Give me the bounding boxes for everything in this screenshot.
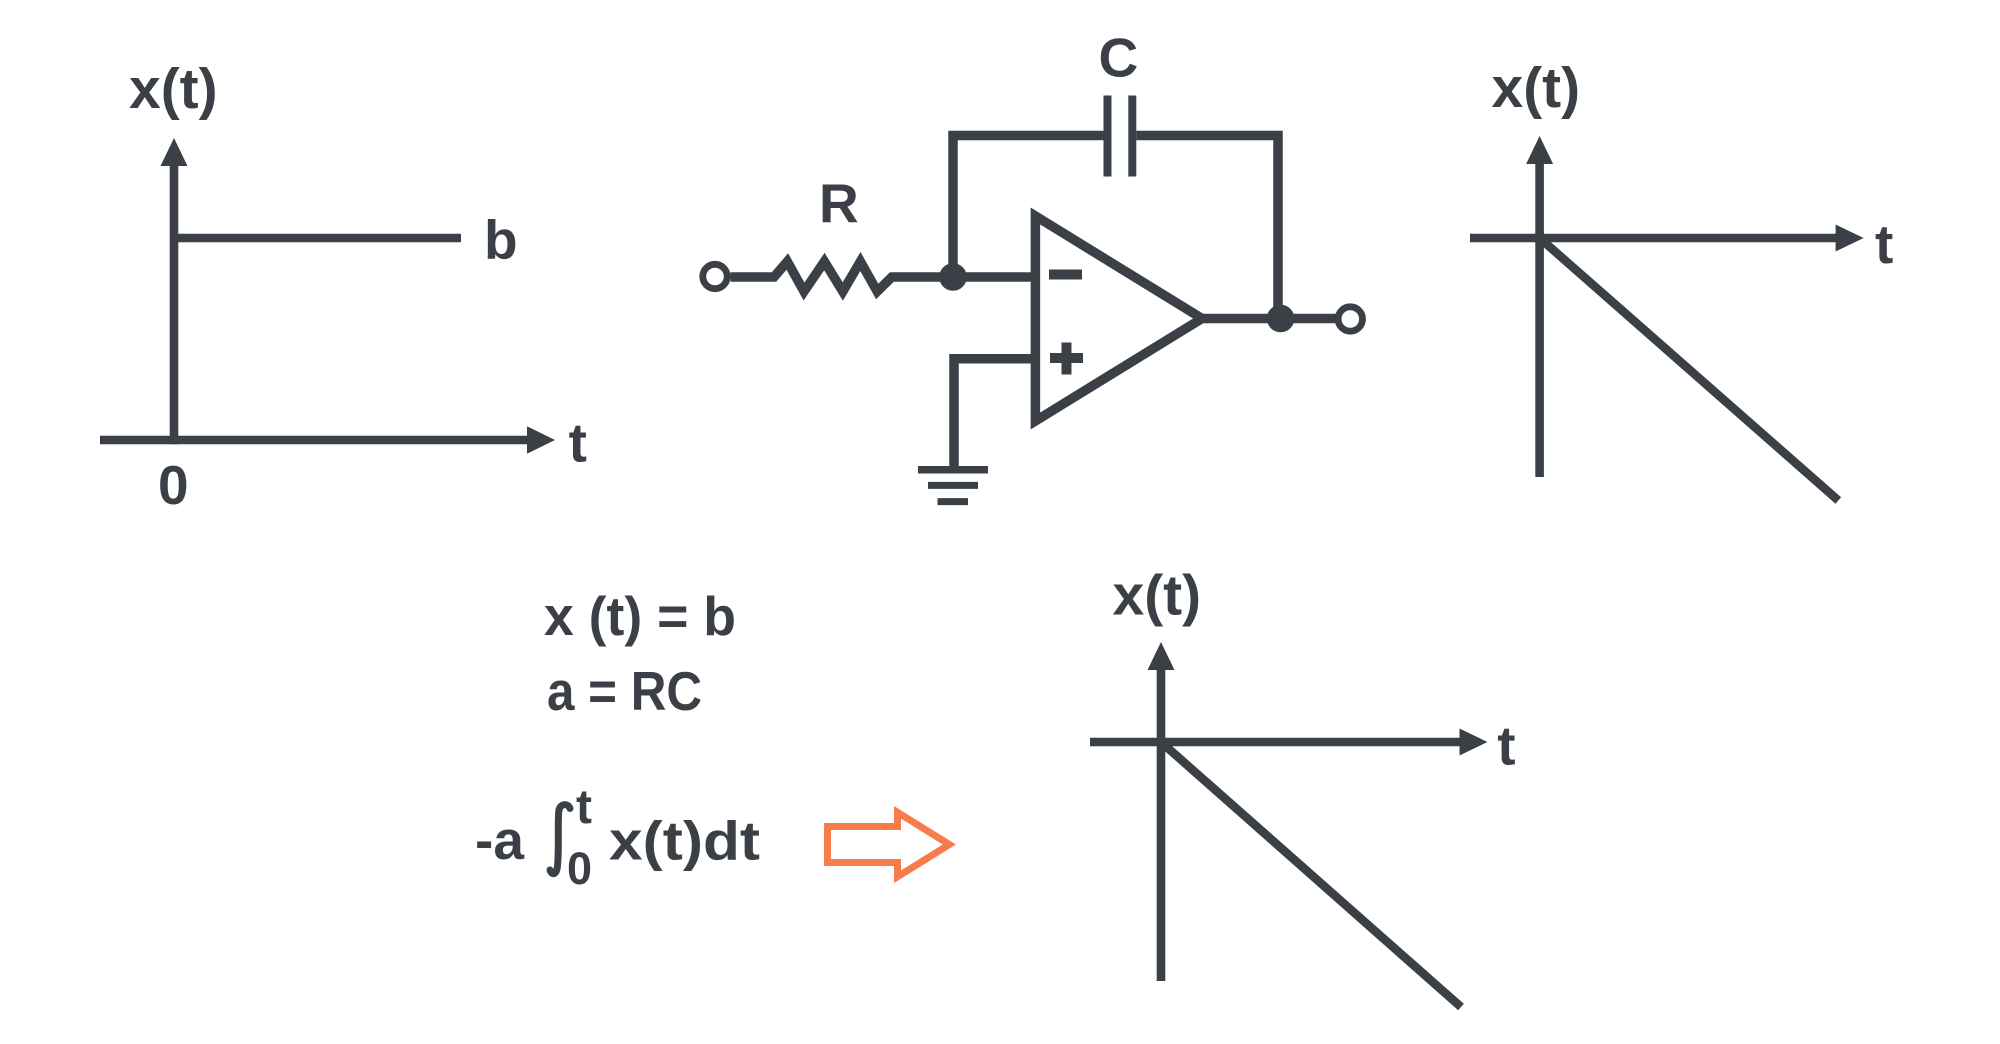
svg-text:C: C [1099,27,1139,89]
svg-text:x(t): x(t) [1492,56,1581,120]
svg-text:x(t): x(t) [129,57,218,121]
svg-text:x (t) = b: x (t) = b [544,585,736,647]
svg-text:t: t [576,781,592,834]
svg-text:t: t [1875,213,1893,275]
svg-text:t: t [1497,715,1515,777]
svg-text:x(t): x(t) [1113,564,1202,628]
svg-text:x(t)dt: x(t)dt [609,810,760,872]
svg-text:R: R [819,173,859,235]
svg-text:b: b [484,209,518,271]
svg-text:-a: -a [475,809,524,871]
svg-text:0: 0 [567,843,592,894]
svg-text:a = RC: a = RC [547,660,702,722]
svg-text:t: t [569,412,587,474]
svg-text:0: 0 [158,454,189,516]
